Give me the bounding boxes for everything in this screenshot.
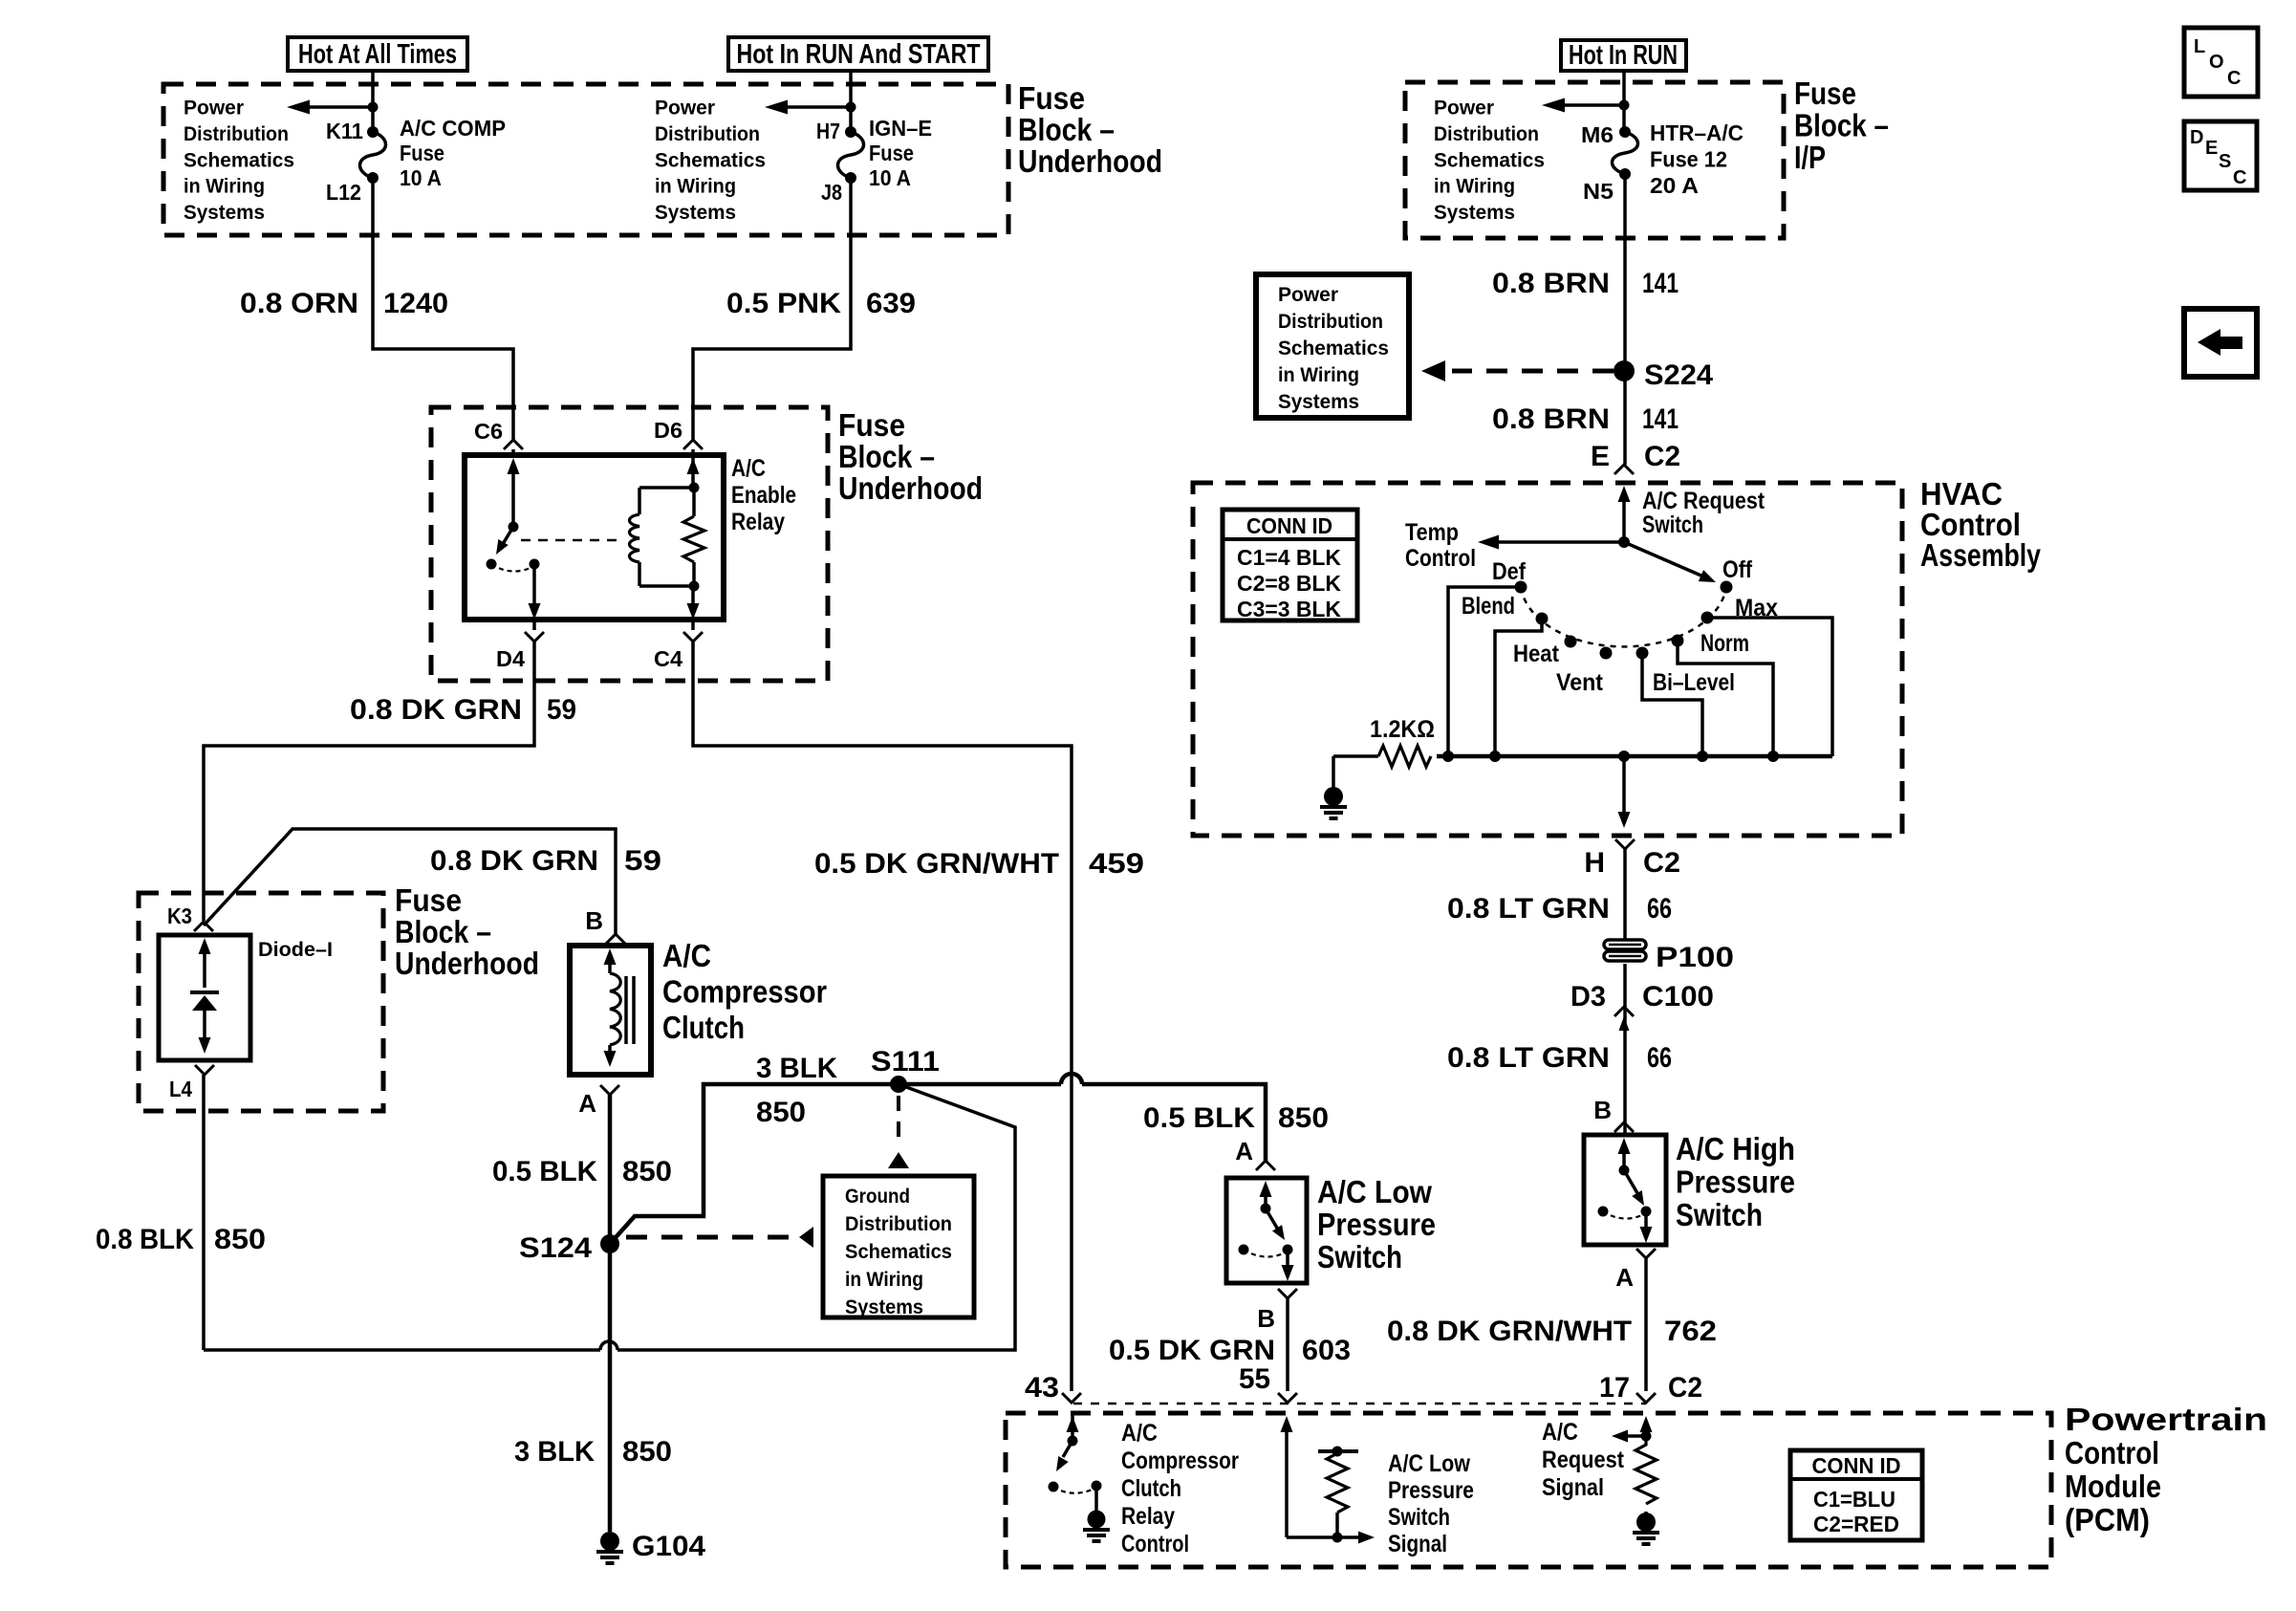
svg-text:0.5 DK GRN/WHT: 0.5 DK GRN/WHT [814,848,1059,880]
svg-text:Block –: Block – [1794,108,1889,143]
svg-text:0.8 LT GRN: 0.8 LT GRN [1447,1042,1610,1074]
svg-text:Control: Control [1405,545,1476,572]
svg-text:S224: S224 [1644,359,1713,391]
svg-text:M6: M6 [1581,122,1614,147]
svg-text:Fuse: Fuse [395,882,462,918]
A/C enable relay box [465,455,724,620]
svg-text:Underhood: Underhood [1018,143,1162,179]
svg-text:A/C: A/C [731,455,766,482]
svg-text:C6: C6 [474,419,503,444]
svg-text:Block –: Block – [838,439,935,474]
svg-text:Signal: Signal [1542,1474,1604,1501]
S111 ground reference dashed arrow [897,1096,900,1147]
ground distribution schematics box [823,1176,974,1317]
svg-text:1.2KΩ: 1.2KΩ [1370,716,1435,743]
svg-text:Distribution: Distribution [655,123,760,145]
wire Def to bus [1448,587,1521,756]
wire 3 BLK 850 bus from S124 to low pressure switch A [610,1084,1061,1244]
svg-text:Systems: Systems [1278,391,1359,413]
svg-text:639: 639 [866,288,916,319]
svg-text:850: 850 [622,1156,672,1187]
svg-text:A/C: A/C [662,938,711,973]
wire 603 [1286,1298,1289,1391]
svg-text:K3: K3 [167,903,192,928]
svg-text:A/C COMP: A/C COMP [400,116,506,141]
relay actuator dashed link [521,539,623,542]
pin D4 [525,632,544,642]
A/C high pressure switch box [1584,1135,1666,1245]
fuse block underhood dashed box (relay) [431,407,828,681]
svg-text:66: 66 [1647,1042,1672,1074]
svg-text:C4: C4 [654,646,682,671]
svg-text:S111: S111 [871,1046,940,1078]
svg-text:Distribution: Distribution [184,123,289,145]
wire from S111 to 0.8 BLK run [617,1084,1015,1350]
wire 3 BLK 850 from S124 to G104 [608,1244,613,1532]
DESC box [2184,121,2257,190]
svg-text:A: A [1615,1263,1634,1292]
HVAC internal ground [1332,756,1335,788]
svg-text:459: 459 [1089,848,1144,880]
svg-text:3 BLK: 3 BLK [756,1053,837,1084]
svg-text:A/C: A/C [1121,1420,1158,1447]
clutch coil [604,948,617,965]
svg-text:603: 603 [1302,1335,1351,1366]
PCM pull-up resistor (17) [1635,1436,1657,1504]
svg-text:850: 850 [214,1224,266,1255]
power label "Hot In RUN And START" [728,37,988,71]
svg-text:Fuse: Fuse [869,141,914,165]
svg-text:Hot In RUN: Hot In RUN [1569,40,1678,71]
svg-text:Control: Control [1121,1531,1189,1557]
rotary position Def [1515,581,1527,594]
splice S124 [600,1234,619,1253]
HVAC control assembly dashed box [1193,483,1902,836]
CONN ID table (PCM) [1790,1450,1922,1540]
svg-text:C3=3 BLK: C3=3 BLK [1237,597,1341,621]
svg-text:Fuse: Fuse [1794,76,1856,111]
temp control arrow [1491,540,1624,544]
svg-text:762: 762 [1664,1316,1717,1347]
svg-text:Powertrain: Powertrain [2065,1402,2267,1437]
svg-text:Switch: Switch [1642,512,1703,538]
svg-text:A: A [1235,1137,1253,1165]
svg-text:HTR–A/C: HTR–A/C [1650,120,1744,145]
svg-text:Systems: Systems [845,1296,923,1318]
A/C compressor clutch box [570,946,651,1075]
svg-text:in Wiring: in Wiring [655,176,736,198]
svg-text:K11: K11 [326,119,363,143]
pin H / C2 [1615,839,1635,849]
svg-text:Pressure: Pressure [1676,1165,1795,1200]
wire to M6 [1622,71,1626,132]
svg-text:Power: Power [655,98,715,120]
power label "Hot In RUN" [1561,40,1686,71]
svg-text:Module: Module [2065,1469,2161,1504]
wire to H7 [849,71,853,132]
diode box [159,935,250,1060]
svg-text:Switch: Switch [1388,1504,1450,1531]
svg-text:Bi–Level: Bi–Level [1653,669,1735,696]
svg-text:in Wiring: in Wiring [1278,364,1359,386]
svg-text:A/C: A/C [1542,1419,1578,1446]
svg-text:(PCM): (PCM) [2065,1502,2150,1537]
wire 639 from J8 to D6 [693,178,851,440]
svg-text:A/C Low: A/C Low [1317,1174,1432,1209]
svg-text:S: S [2219,151,2231,172]
splice S111 [890,1076,907,1093]
svg-text:CONN ID: CONN ID [1246,513,1332,538]
rotary position Heat [1565,636,1577,648]
svg-text:Heat: Heat [1513,641,1560,667]
svg-text:Signal: Signal [1388,1531,1447,1557]
svg-text:0.8 BRN: 0.8 BRN [1492,403,1610,435]
svg-text:Systems: Systems [1434,202,1515,224]
A/C request signal pin [1644,1427,1648,1436]
svg-text:S124: S124 [519,1232,592,1264]
svg-text:Off: Off [1722,556,1753,583]
svg-text:Hot In RUN And START: Hot In RUN And START [737,39,981,70]
ground G104 [600,1532,619,1551]
svg-text:O: O [2209,52,2224,73]
svg-text:Fuse: Fuse [1018,80,1085,116]
rotary position Off [1721,581,1733,594]
svg-text:Ground: Ground [845,1186,910,1208]
pin A (high pressure switch) [1636,1249,1656,1258]
high pressure switch contacts [1618,1138,1631,1154]
svg-text:Distribution: Distribution [1434,123,1539,145]
relay switch [508,458,520,474]
svg-text:43: 43 [1025,1372,1059,1404]
svg-text:Vent: Vent [1556,669,1604,696]
svg-text:B: B [585,906,603,935]
wire 459 from C4 down right column [691,620,695,630]
svg-text:L4: L4 [169,1077,192,1101]
svg-text:A: A [578,1089,596,1118]
powertrain control module dashed box [1006,1413,2051,1567]
svg-text:C2: C2 [1643,847,1680,879]
svg-text:59: 59 [547,694,576,726]
svg-text:A/C Request: A/C Request [1642,488,1765,514]
wire Bi-Level to bus [1642,653,1702,756]
svg-text:N5: N5 [1583,179,1614,204]
wire Max to bus [1707,618,1832,756]
rotary position Max [1701,612,1714,624]
A/C request switch entry [1622,497,1626,542]
A/C low pressure switch box [1226,1178,1307,1283]
svg-text:C1=BLU: C1=BLU [1813,1487,1895,1512]
svg-text:L12: L12 [326,180,361,205]
svg-text:Clutch: Clutch [662,1010,745,1045]
rotary switch dashed arc [1521,587,1726,646]
svg-text:in Wiring: in Wiring [1434,176,1515,198]
svg-text:Request: Request [1542,1447,1625,1473]
svg-text:Distribution: Distribution [1278,311,1383,333]
svg-text:in Wiring: in Wiring [845,1269,923,1291]
svg-text:C2=RED: C2=RED [1813,1512,1899,1536]
svg-text:D4: D4 [496,646,525,671]
PCM pull-up resistor (55) [1318,1449,1358,1453]
svg-text:B: B [1257,1304,1275,1333]
svg-text:Compressor: Compressor [1121,1448,1239,1474]
svg-text:Power: Power [184,98,244,120]
svg-text:E: E [1591,441,1610,472]
svg-text:Hot At All Times: Hot At All Times [298,39,457,70]
svg-text:850: 850 [1278,1102,1329,1134]
wire Norm to bus [1678,641,1773,756]
rotary position Norm [1672,635,1684,647]
svg-text:Block –: Block – [395,914,491,949]
svg-text:0.8 ORN: 0.8 ORN [240,288,358,319]
svg-text:Schematics: Schematics [1278,337,1389,359]
svg-text:D3: D3 [1570,981,1606,1012]
svg-text:C: C [2233,167,2246,188]
A/C compressor clutch relay control pin [1071,1413,1074,1441]
svg-text:10 A: 10 A [869,165,911,190]
svg-text:I/P: I/P [1794,140,1826,175]
power distribution reference arrow [296,105,373,109]
svg-text:A/C High: A/C High [1676,1131,1795,1166]
svg-text:Switch: Switch [1676,1197,1763,1232]
svg-text:H7: H7 [816,119,840,143]
wire 850 from L4 down [202,1075,206,1350]
svg-text:C2: C2 [1668,1372,1702,1404]
svg-text:1240: 1240 [383,288,448,319]
wire 59 from D4 to K3 [532,620,536,630]
svg-text:G104: G104 [632,1531,705,1562]
relay coil [638,488,641,514]
pin L4 [195,1065,214,1075]
svg-text:Norm: Norm [1700,630,1749,657]
low pressure switch contacts [1260,1181,1272,1197]
svg-text:H: H [1584,847,1605,879]
svg-text:Underhood: Underhood [838,470,983,506]
svg-text:0.5 BLK: 0.5 BLK [1143,1102,1255,1134]
svg-text:850: 850 [622,1436,672,1468]
svg-text:0.5 PNK: 0.5 PNK [726,288,841,319]
svg-text:Schematics: Schematics [845,1241,952,1263]
svg-text:Relay: Relay [1121,1503,1175,1530]
relay resistor [691,455,695,488]
svg-text:66: 66 [1647,893,1672,925]
svg-text:in Wiring: in Wiring [184,176,265,198]
power distribution reference arrow (right) [1551,103,1624,107]
svg-text:Schematics: Schematics [184,149,294,171]
rotary switch arrow to Off [1624,542,1703,577]
svg-text:Compressor: Compressor [662,974,827,1010]
branch wire 59 to compressor clutch B [204,829,616,934]
svg-text:0.8 DK GRN: 0.8 DK GRN [430,845,598,877]
svg-text:Pressure: Pressure [1317,1207,1436,1242]
power distribution reference arrow (middle) [774,105,851,109]
wire 762 [1644,1258,1648,1391]
svg-text:Schematics: Schematics [655,149,766,171]
svg-text:C1=4 BLK: C1=4 BLK [1237,545,1341,570]
svg-text:E: E [2205,138,2218,159]
A/C low pressure switch signal pin [1285,1427,1289,1537]
S124 ground reference dashed arrow [626,1235,797,1240]
svg-text:Relay: Relay [731,509,785,535]
svg-text:Temp: Temp [1405,519,1459,546]
svg-text:55: 55 [1239,1363,1270,1395]
svg-text:B: B [1593,1096,1612,1124]
svg-text:J8: J8 [821,180,842,205]
PCM connector dashed separator [1073,1403,1646,1405]
svg-text:Assembly: Assembly [1920,537,2042,573]
power distribution schematics box (right) [1256,274,1409,418]
wire 141 from N5 to HVAC [1623,174,1627,465]
splice S224 [1614,360,1635,381]
rotary position Blend [1536,613,1549,625]
svg-text:C2=8 BLK: C2=8 BLK [1237,571,1341,596]
svg-text:0.8 DK GRN: 0.8 DK GRN [350,694,522,726]
svg-text:850: 850 [756,1097,806,1128]
svg-text:0.8 DK GRN/WHT: 0.8 DK GRN/WHT [1387,1316,1632,1347]
svg-text:141: 141 [1642,403,1679,435]
svg-text:Fuse 12: Fuse 12 [1650,147,1727,172]
pin C4 [683,632,703,642]
fuse block I/P dashed box [1405,82,1784,238]
svg-text:141: 141 [1642,268,1679,299]
svg-text:Def: Def [1492,558,1527,585]
svg-text:C100: C100 [1642,981,1714,1012]
svg-text:D6: D6 [654,418,682,443]
svg-text:3 BLK: 3 BLK [514,1436,595,1468]
svg-text:Switch: Switch [1317,1239,1402,1274]
diode symbol [199,938,211,954]
svg-text:D: D [2190,127,2203,148]
HVAC output wire to H [1622,756,1626,813]
svg-text:Blend: Blend [1462,593,1515,620]
wire from Hot At All Times to K11 [371,71,375,134]
back arrow box [2184,309,2257,377]
svg-text:Clutch: Clutch [1121,1475,1181,1502]
rotary position Bi-Level [1636,647,1649,660]
svg-text:59: 59 [624,845,661,877]
LOC box [2184,28,2258,97]
pin B (low pressure switch) [1278,1289,1297,1298]
svg-text:Diode–I: Diode–I [258,939,333,961]
svg-text:Control: Control [2065,1435,2159,1470]
svg-text:20 A: 20 A [1650,173,1699,198]
svg-text:10 A: 10 A [400,165,442,190]
back arrow icon [2198,329,2220,356]
svg-text:Systems: Systems [655,202,736,224]
CONN ID table (HVAC) [1223,510,1357,620]
svg-text:CONN ID: CONN ID [1812,1453,1901,1478]
S224 power reference dashed arrow [1452,369,1614,374]
svg-text:C2: C2 [1644,441,1680,472]
svg-text:C: C [2227,68,2241,89]
pass-through grommet P100 [1604,940,1646,949]
svg-text:P100: P100 [1656,942,1734,973]
svg-text:0.8 LT GRN: 0.8 LT GRN [1447,893,1610,925]
svg-text:Fuse: Fuse [400,141,444,165]
svg-text:17: 17 [1599,1372,1630,1404]
svg-text:Power: Power [1278,284,1338,306]
svg-text:0.5 DK GRN: 0.5 DK GRN [1109,1335,1275,1366]
svg-text:L: L [2194,36,2205,57]
svg-text:Fuse: Fuse [838,407,905,443]
svg-text:IGN–E: IGN–E [869,116,932,141]
fuse block underhood dashed box (top) [163,84,1008,235]
rotary position Vent [1600,647,1613,660]
svg-text:Block –: Block – [1018,112,1115,147]
pin A (clutch) [600,1085,619,1095]
svg-text:0.5 BLK: 0.5 BLK [492,1156,597,1187]
wire A to S124 [608,1095,613,1244]
HVAC bus wire [1437,754,1832,759]
svg-text:Underhood: Underhood [395,946,539,981]
wire 1240 from L12 to C6 [373,178,513,440]
svg-text:Systems: Systems [184,202,265,224]
svg-text:Enable: Enable [731,482,796,509]
svg-text:0.8 BRN: 0.8 BRN [1492,268,1610,299]
svg-text:A/C Low: A/C Low [1388,1450,1470,1477]
fuse block underhood dashed box (diode) [139,893,383,1111]
power label "Hot At All Times" [288,37,467,71]
svg-text:Power: Power [1434,98,1494,120]
wire Blend to bus [1495,619,1542,756]
svg-text:0.8 BLK: 0.8 BLK [96,1224,194,1255]
svg-text:Schematics: Schematics [1434,149,1545,171]
wire to C100 [1623,964,1627,1135]
svg-text:Pressure: Pressure [1388,1477,1474,1504]
svg-text:Distribution: Distribution [845,1213,952,1235]
